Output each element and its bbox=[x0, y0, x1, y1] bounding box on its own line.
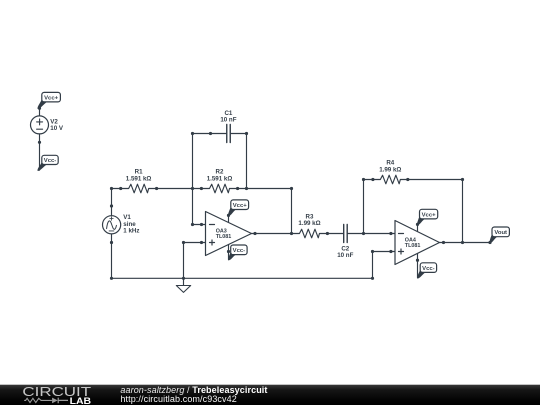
node OA3 Vcc+ pin bbox=[227, 214, 230, 217]
node R4 right corner bbox=[461, 178, 464, 181]
node R2 right terminal bbox=[236, 187, 239, 190]
resistor R4 bbox=[373, 175, 408, 184]
op-amp OA4 bbox=[391, 221, 444, 265]
svg-text:http://circuitlab.com/c93cv42: http://circuitlab.com/c93cv42 bbox=[120, 394, 236, 404]
node OA3 Vcc- pin bbox=[227, 250, 230, 253]
node bottom right corner bbox=[371, 277, 374, 280]
ground bbox=[176, 278, 190, 292]
node junction B bbox=[245, 187, 248, 190]
capacitor C1 bbox=[211, 125, 247, 143]
wire C2 to OA4 minus bbox=[364, 233, 391, 235]
svg-text:Vcc-: Vcc- bbox=[44, 158, 56, 164]
node bottom left corner bbox=[110, 277, 113, 280]
wire R4 to output vertical bbox=[408, 180, 463, 243]
svg-text:Vcc+: Vcc+ bbox=[233, 203, 247, 209]
label V1 value bbox=[123, 214, 139, 234]
node R1 left terminal bbox=[119, 187, 122, 190]
svg-text:10 nF: 10 nF bbox=[337, 252, 353, 259]
resistor R3 bbox=[292, 229, 328, 238]
node main left junction bbox=[110, 187, 113, 190]
label V2 value bbox=[50, 118, 64, 132]
resistor R2 bbox=[201, 184, 237, 193]
wire bottom rail bbox=[112, 252, 391, 279]
wire OA4 output bbox=[445, 242, 491, 244]
svg-text:1.591 kΩ: 1.591 kΩ bbox=[126, 175, 152, 182]
label R4 value bbox=[379, 160, 401, 174]
node junction out/feedback bbox=[290, 232, 293, 235]
node OA3 minus pin bbox=[200, 223, 203, 226]
node R2 left terminal bbox=[200, 187, 203, 190]
logo resistor squiggle bbox=[24, 398, 52, 402]
node corner noninverting OA4 bbox=[371, 250, 374, 253]
wire OA3 out to R3 bbox=[255, 233, 292, 235]
wire C1 right vertical bbox=[246, 134, 248, 189]
flag Vcc+ (OA3) bbox=[229, 200, 249, 216]
flag Vcc+ (V2) bbox=[38, 92, 60, 108]
label OA4 bbox=[405, 237, 421, 249]
label OA3 bbox=[216, 228, 232, 240]
footer bar bbox=[0, 385, 540, 405]
node Vout wire end bbox=[488, 241, 491, 244]
op-amp OA3 bbox=[202, 212, 256, 256]
svg-text:TL081: TL081 bbox=[405, 243, 421, 249]
node OA4 Vcc- pin bbox=[416, 259, 419, 262]
wire C1 left vertical down to inverting input bbox=[193, 134, 202, 225]
wire node to V1 bbox=[111, 189, 113, 207]
wire V1 to bottom rail bbox=[111, 243, 113, 279]
node C2 right junction bbox=[362, 232, 365, 235]
wire OA4 Vcc- stub bbox=[417, 254, 419, 278]
node junction A bbox=[191, 187, 194, 190]
node output/R4 junction bbox=[461, 241, 464, 244]
wire OA3 Vcc+ stub bbox=[228, 215, 230, 222]
voltage source V1 sine bbox=[103, 206, 121, 243]
node corner OA3 plus bbox=[182, 241, 185, 244]
node C1 left corner bbox=[191, 132, 194, 135]
resistor R1 bbox=[121, 184, 157, 193]
svg-text:Vout: Vout bbox=[494, 230, 507, 236]
svg-text:1.99 kΩ: 1.99 kΩ bbox=[298, 220, 320, 227]
flag Vout bbox=[490, 227, 509, 243]
node OA4 Vcc+ pin bbox=[416, 223, 419, 226]
label R3 value bbox=[298, 213, 320, 227]
node R4 left corner bbox=[362, 178, 365, 181]
wire C1 left branch bbox=[193, 133, 211, 135]
svg-text:10 V: 10 V bbox=[50, 125, 64, 132]
node OA3 plus pin bbox=[200, 241, 203, 244]
node C1 left terminal bbox=[209, 132, 212, 135]
node corner inverting level bbox=[191, 223, 194, 226]
wire left node to R1 bbox=[112, 188, 121, 190]
svg-text:Vcc-: Vcc- bbox=[422, 266, 434, 272]
svg-text:Vcc+: Vcc+ bbox=[422, 212, 436, 218]
wire OA3 Vcc- stub bbox=[228, 245, 230, 260]
svg-text:1.99 kΩ: 1.99 kΩ bbox=[379, 167, 401, 174]
wire R2 to feedback corner bbox=[238, 189, 292, 234]
wire V2 top lead bbox=[39, 108, 41, 116]
voltage source V2 bbox=[31, 116, 49, 134]
label R1 value bbox=[126, 169, 152, 183]
node V1 top terminal bbox=[110, 204, 113, 207]
flag Vcc- (OA3) bbox=[229, 245, 247, 260]
node ground junction bbox=[182, 277, 185, 280]
wire V2 bottom bbox=[39, 134, 41, 170]
node V1 bottom terminal bbox=[110, 241, 113, 244]
label C1 value bbox=[220, 110, 236, 124]
node OA4 plus pin bbox=[389, 250, 392, 253]
wire R1 to R2 bbox=[157, 188, 202, 190]
svg-text:Vcc+: Vcc+ bbox=[44, 95, 58, 101]
flag Vcc- (OA4) bbox=[418, 263, 437, 278]
node OA3 out terminal bbox=[253, 232, 256, 235]
svg-text:1.591 kΩ: 1.591 kΩ bbox=[207, 175, 233, 182]
svg-text:LAB: LAB bbox=[70, 396, 92, 405]
svg-text:10 nF: 10 nF bbox=[220, 117, 236, 124]
logo diode bbox=[52, 398, 58, 404]
node R4 left terminal bbox=[371, 178, 374, 181]
node V2 top terminal bbox=[38, 107, 41, 110]
wire ground branch up to OA3 plus bbox=[184, 243, 202, 279]
capacitor C2 bbox=[327, 225, 363, 243]
svg-text:Vcc-: Vcc- bbox=[233, 248, 245, 254]
label C2 value bbox=[337, 245, 353, 259]
node feedback corner bbox=[290, 187, 293, 190]
node R1 right terminal bbox=[155, 187, 158, 190]
node R4 right terminal bbox=[406, 178, 409, 181]
svg-text:TL081: TL081 bbox=[216, 234, 232, 240]
node R3 right / C2 left terminal bbox=[326, 232, 329, 235]
node OA4 minus pin bbox=[389, 232, 392, 235]
flag Vcc- (V2) bbox=[38, 155, 58, 170]
node C1 right corner bbox=[245, 132, 248, 135]
svg-text:1 kHz: 1 kHz bbox=[123, 228, 139, 235]
node V2 bottom terminal bbox=[38, 141, 41, 144]
node OA4 out terminal bbox=[442, 241, 445, 244]
wire OA4 Vcc+ stub bbox=[417, 224, 419, 231]
flag Vcc+ (OA4) bbox=[418, 209, 438, 224]
label R2 value bbox=[207, 169, 233, 183]
wire R4 feedback branch bbox=[364, 180, 373, 234]
